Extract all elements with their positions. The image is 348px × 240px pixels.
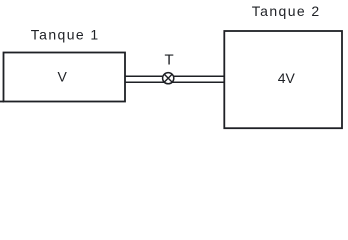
svg-text:Tanque 1: Tanque 1 bbox=[31, 26, 100, 42]
svg-text:V: V bbox=[58, 68, 68, 84]
svg-text:4V: 4V bbox=[278, 70, 296, 86]
svg-text:Tanque 2: Tanque 2 bbox=[252, 3, 321, 19]
svg-text:T: T bbox=[165, 51, 174, 68]
